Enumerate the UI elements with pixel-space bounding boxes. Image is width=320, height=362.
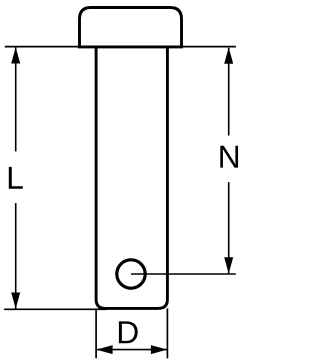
extension line D left	[95, 308, 97, 358]
label D	[119, 321, 138, 343]
label L	[9, 167, 23, 189]
arrowhead L up	[11, 47, 20, 63]
extension line top (shoulder level)	[5, 46, 236, 48]
arrowhead N down	[224, 257, 233, 273]
arrowhead D right	[151, 345, 167, 354]
extension line bottom left (pin end level)	[4, 308, 107, 310]
extension line D right	[166, 308, 168, 358]
pin head	[80, 8, 182, 47]
arrowhead D left	[96, 345, 112, 354]
dimension line N upper segment	[228, 48, 230, 136]
pin shank	[96, 47, 167, 309]
dimension line L upper segment	[15, 48, 17, 152]
hole center line	[131, 273, 236, 275]
hole	[117, 260, 145, 288]
dimension line L lower segment	[15, 203, 17, 309]
dimension line D	[97, 349, 168, 351]
label N	[220, 146, 238, 168]
arrowhead L down	[11, 293, 20, 309]
arrowhead N up	[224, 47, 233, 63]
dimension line N lower segment	[228, 182, 230, 273]
